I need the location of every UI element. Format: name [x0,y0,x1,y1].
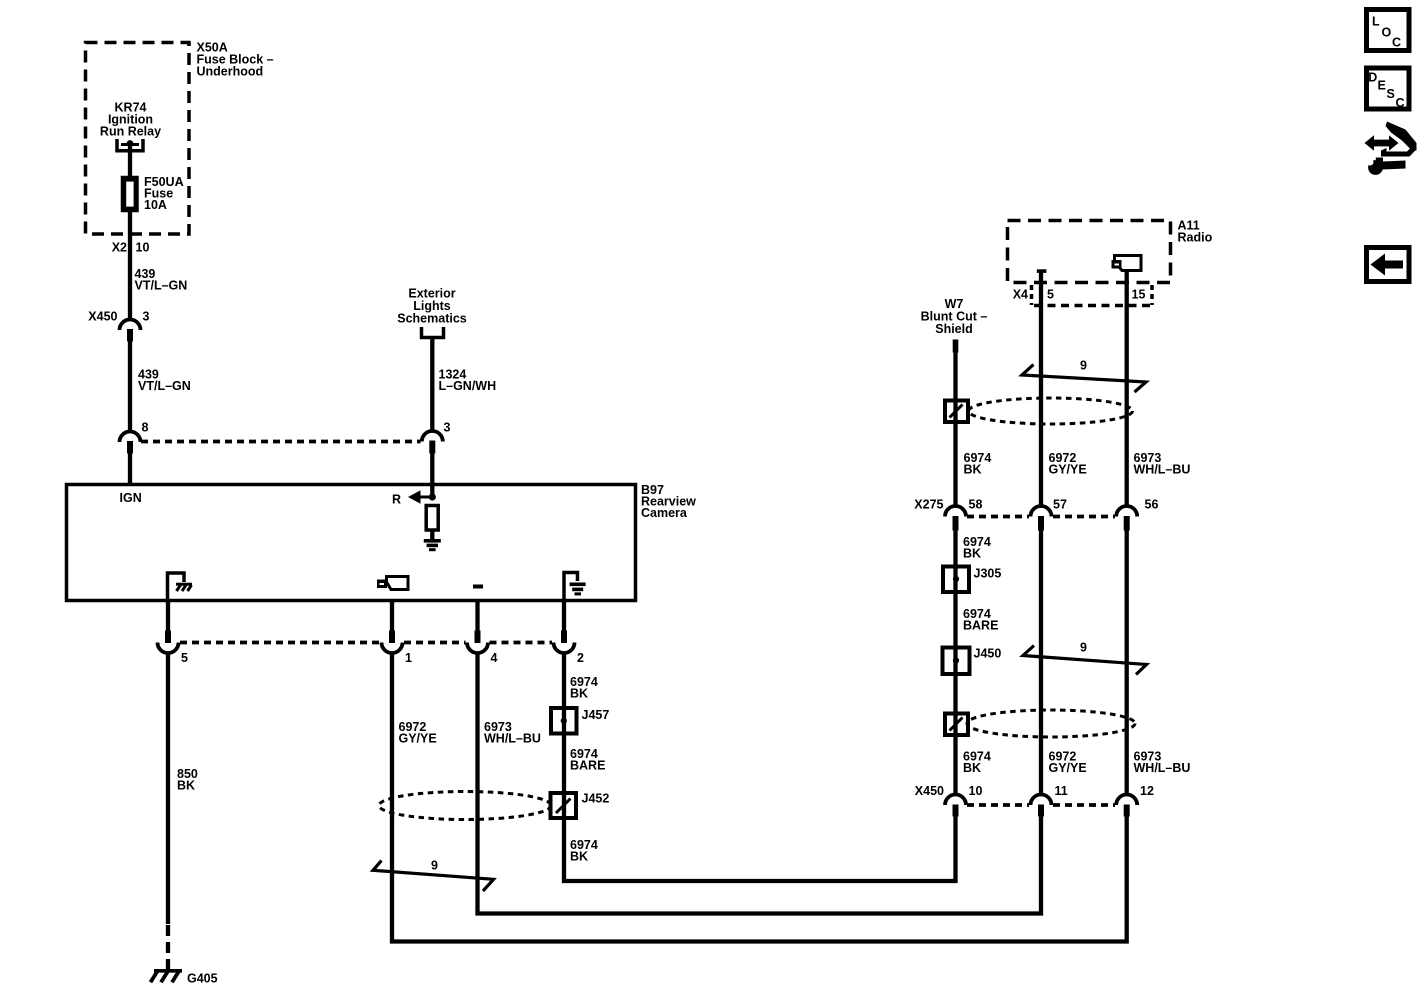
wire 1324 L-GN/WH [430,338,434,431]
wire 6973 WH/L-BU X275-56 to X450-12 [1125,531,1129,796]
svg-text:BK: BK [570,850,588,864]
wire fuse to connector X450 [128,211,132,321]
svg-text:VT/L–GN: VT/L–GN [135,279,188,293]
wire pin 8 to camera box [128,454,132,487]
dashed connector line pin 8 to pin 3 [141,440,421,444]
relay KR74 label [100,101,161,139]
svg-text:57: 57 [1053,498,1067,512]
svg-text:9: 9 [1080,641,1087,655]
radio A11 dashed box [1008,221,1171,283]
svg-text:10: 10 [136,241,150,255]
svg-text:J452: J452 [582,792,610,806]
wire pin 3 to camera box [430,454,434,498]
internal resistor [426,506,438,531]
internal wire resistor to ground [430,530,434,540]
wire radio pin 15 down [1125,272,1129,507]
svg-text:58: 58 [969,498,983,512]
exterior lights schematics reference label [397,287,467,326]
svg-text:10: 10 [969,784,983,798]
wire 6973 WH/L-BU label above X275 [1134,451,1191,477]
svg-text:Underhood: Underhood [197,65,264,79]
svg-text:C: C [1392,36,1401,50]
DESC button [1367,68,1410,110]
svg-text:O: O [1382,26,1392,40]
svg-text:Schematics: Schematics [397,312,467,326]
wire 6974 BARE label left [570,747,605,773]
svg-text:L–GN/WH: L–GN/WH [439,379,497,393]
rearview camera B97 box [67,485,636,601]
connector X450 arc pin 10 [945,795,966,817]
twist arrow 9 top right [1022,359,1146,393]
wire 6974 BK label below X275 [963,535,991,561]
svg-text:WH/L–BU: WH/L–BU [484,732,541,746]
repair instructions icon [1365,122,1417,175]
svg-text:BK: BK [963,761,981,775]
svg-text:D: D [1368,71,1377,85]
wire 6972 GY/YE from pin 1 [392,653,1127,942]
twist arrow 9 bottom left [373,859,494,892]
svg-text:X450: X450 [88,310,117,324]
svg-text:3: 3 [143,310,150,324]
wire 6974 BK from pin 2 [562,653,566,820]
svg-text:WH/L–BU: WH/L–BU [1134,463,1191,477]
svg-text:56: 56 [1145,498,1159,512]
wire 439 VT/L-GN label upper [135,267,188,293]
svg-text:5: 5 [1047,288,1054,302]
fuse F50UA label [144,175,184,212]
splice J450 [943,647,1002,675]
wire radio pin 5 down [1039,273,1043,507]
svg-text:1: 1 [405,651,412,665]
wire 6972 GY/YE label above X450 [1049,750,1087,776]
internal ground symbol [424,539,441,551]
wire 6973 WH/L-BU label left [484,720,541,746]
svg-text:Radio: Radio [1178,231,1213,245]
svg-text:Run Relay: Run Relay [100,125,161,139]
svg-text:12: 12 [1140,784,1154,798]
svg-text:GY/YE: GY/YE [1049,463,1087,477]
svg-text:L: L [1372,15,1380,29]
dashed connector line across B97 pins [180,641,552,645]
shield symbol box top [945,401,968,423]
svg-text:2: 2 [577,651,584,665]
svg-text:WH/L–BU: WH/L–BU [1134,761,1191,775]
wire B97 pin 5 stub [165,600,171,643]
twisted pair ellipse top right [969,398,1133,424]
internal ground symbol at pin 2 [564,573,586,601]
svg-text:X4: X4 [1013,288,1028,302]
connector X4 labels [1013,288,1146,302]
wire 6974 BK label above X450 [963,750,991,776]
connector X275 arc pin 58 [945,506,966,531]
radio minus pin symbol [1037,269,1047,273]
wire 6972 GY/YE X275-57 to X450-11 [1039,531,1043,796]
svg-text:9: 9 [431,859,438,873]
connector pin 3 of B97 [422,421,451,454]
fuse block X50A label [197,41,274,79]
svg-text:BARE: BARE [570,759,605,773]
connector X4 dashed outline [1032,285,1153,306]
svg-text:10A: 10A [144,198,167,212]
svg-text:GY/YE: GY/YE [1049,761,1087,775]
W7 blunt cut wire stub [953,340,959,507]
connector arc pin 4 [467,643,498,666]
shield symbol box lower [945,714,968,736]
svg-text:BK: BK [570,687,588,701]
svg-text:GY/YE: GY/YE [399,732,437,746]
radio camera icon [1112,256,1142,271]
svg-text:IGN: IGN [120,491,142,505]
svg-text:8: 8 [142,421,149,435]
svg-text:X275: X275 [914,498,943,512]
internal minus label at pin 4 [473,585,483,589]
dashed connector line X275 [967,515,1115,519]
wire relay to fuse [128,146,132,177]
splice J457 [551,708,609,734]
wire 6974 BK X275 to J305 [953,531,957,796]
svg-text:BK: BK [963,547,981,561]
internal R output arrow [392,490,436,506]
svg-text:E: E [1378,79,1386,93]
svg-text:9: 9 [1080,359,1087,373]
splice J305 [943,567,1001,593]
svg-text:BK: BK [964,463,982,477]
dashed connector line X450 [967,803,1115,807]
connector pin 8 of B97 [120,421,149,454]
wire 6974 BARE label right [963,607,998,633]
wire B97 pin 2 stub [561,600,567,643]
svg-text:J305: J305 [974,567,1002,581]
fuse block X50A dashed box [86,43,190,235]
connector X450 arc pin 12 [1116,795,1137,817]
wire 6972 GY/YE label left [399,720,437,746]
svg-text:S: S [1387,87,1395,101]
wire 6974 BK below J452 [564,816,956,881]
svg-text:11: 11 [1055,784,1068,798]
wire 6974 BK label lower left [570,838,598,864]
connector arc pin 5 [158,643,189,666]
svg-text:5: 5 [181,651,188,665]
radio A11 label [1178,219,1213,245]
svg-text:3: 3 [444,421,451,435]
wire B97 pin 1 stub [389,600,395,643]
svg-text:X2: X2 [112,241,127,255]
svg-text:Shield: Shield [935,322,973,336]
svg-text:J450: J450 [974,647,1002,661]
LOC button [1367,10,1410,51]
svg-text:BK: BK [177,779,195,793]
wire 439 VT/L-GN label lower [138,368,191,394]
connector X450 arc pin 11 [1031,795,1052,817]
svg-text:15: 15 [1132,288,1146,302]
svg-text:C: C [1396,96,1405,110]
connector X275 arc pin 57 [1031,506,1052,531]
connector X275 arc pin 56 [1116,506,1137,531]
svg-text:J457: J457 [582,708,610,722]
connector arc pin 2 [554,643,585,666]
twisted pair ellipse left [379,792,551,820]
connector X450 pin 3 [88,310,149,342]
internal chassis ground at pin 5 [168,573,193,600]
wire B97 pin 4 stub [475,600,481,643]
twisted pair ellipse lower right [967,710,1135,737]
wire 1324 L-GN/WH label [439,368,497,394]
connector X2 pin 10 label [112,241,150,255]
off-page reference bracket [422,327,444,338]
wire 6973 WH/L-BU from pin 4 [478,653,1042,914]
wire 6974 BK label upper left [570,675,598,701]
B97 rearview camera label [641,483,696,520]
svg-text:X450: X450 [915,784,944,798]
svg-text:4: 4 [491,651,498,665]
wire 439 VT/L-GN segment 2 [128,342,132,433]
internal camera icon at pin 1 [377,577,408,590]
svg-text:Camera: Camera [641,506,688,520]
wire 850 BK [166,653,170,969]
svg-text:R: R [392,493,401,507]
twist arrow 9 middle right [1023,641,1147,675]
shield splice J452 [551,792,610,819]
connector X275 row labels [914,498,1158,512]
svg-text:VT/L–GN: VT/L–GN [138,379,191,393]
back button [1367,248,1410,282]
wire 6973 WH/L-BU label above X450 [1134,750,1191,776]
wire 6972 GY/YE label above X275 [1049,451,1087,477]
connector X450 row labels [915,784,1154,798]
wire 6974 BK label above X275 [964,451,992,477]
svg-text:BARE: BARE [963,619,998,633]
wire 850 BK label [177,767,198,793]
connector arc pin 1 [382,643,413,666]
ground G405 [151,970,183,982]
svg-text:G405: G405 [187,972,218,986]
fuse F50UA [123,178,138,211]
W7 blunt cut label [921,297,988,336]
relay KR74 contact symbol [117,139,143,151]
